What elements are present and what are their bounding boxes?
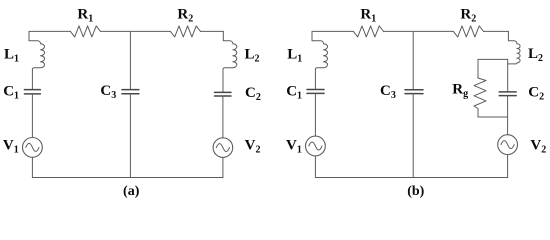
wire top rail right (b) — [484, 30, 509, 32]
svg-text:C1: C1 — [3, 84, 19, 102]
wire C3 branch top — [129, 31, 131, 89]
svg-text:C3: C3 — [100, 83, 116, 101]
wire top rail left (a) — [29, 30, 70, 32]
source V2 — [213, 138, 233, 158]
wire C3 branch bottom — [129, 94, 131, 178]
capacitor C1 — [24, 90, 40, 94]
svg-text:(b): (b) — [407, 184, 424, 199]
resistor Rg — [474, 78, 486, 109]
svg-text:R1: R1 — [360, 6, 376, 24]
svg-text:C2: C2 — [528, 85, 544, 103]
svg-text:V2: V2 — [245, 138, 261, 156]
capacitor C2 (b) — [499, 92, 516, 96]
svg-text:L2: L2 — [245, 47, 260, 65]
svg-text:C3: C3 — [380, 83, 396, 101]
svg-text:Rg: Rg — [452, 82, 468, 100]
svg-text:R2: R2 — [177, 6, 193, 24]
svg-text:V1: V1 — [286, 138, 302, 156]
svg-text:C2: C2 — [245, 85, 261, 103]
source V1 (b) — [306, 136, 326, 156]
inductor L1 (b) — [312, 31, 328, 69]
wire C3 branch bottom (b) — [412, 94, 414, 178]
wire Rg branch left upper (b) — [477, 59, 479, 78]
resistor R1 — [70, 26, 100, 37]
wire L1 to C1 — [31, 69, 33, 89]
wire parallel branch bottom (b) — [478, 116, 508, 118]
wire C2 to V2 — [222, 96, 224, 138]
resistor R2 — [170, 26, 200, 37]
svg-text:C1: C1 — [286, 84, 302, 102]
wire top rail middle (b) — [384, 30, 454, 32]
wire L1 to C1 (b) — [314, 69, 316, 89]
wire C1 to V1 (b) — [314, 94, 316, 137]
wire bottom rail (a) — [32, 177, 223, 179]
inductor L1 — [29, 31, 45, 69]
inductor L2 — [223, 31, 237, 69]
svg-text:R1: R1 — [77, 6, 93, 24]
svg-text:L1: L1 — [287, 47, 302, 65]
capacitor C1 (b) — [307, 90, 324, 94]
wire V2 to bottom rail — [222, 157, 224, 177]
capacitor C2 — [215, 92, 232, 96]
svg-text:V2: V2 — [530, 137, 546, 155]
source V2 (b) — [498, 135, 518, 155]
wire bottom rail (b) — [315, 177, 507, 179]
resistor R1 (b) — [353, 26, 383, 37]
svg-text:L1: L1 — [4, 47, 19, 65]
capacitor C3 — [122, 90, 139, 94]
wire V2 to bottom rail (b) — [507, 155, 509, 178]
wire top rail right (a) — [201, 30, 224, 32]
wire C2 to V2 (b) — [507, 96, 509, 135]
inductor L2 (b) — [508, 31, 520, 64]
resistor R2 (b) — [453, 26, 483, 37]
wire top rail left (b) — [312, 30, 353, 32]
capacitor C3 (b) — [405, 90, 423, 94]
wire Rg branch left lower (b) — [477, 109, 479, 118]
wire L2 junction to C2 (b) — [507, 59, 509, 91]
svg-text:(a): (a) — [123, 184, 140, 199]
wire top rail middle (a) — [101, 30, 171, 32]
wire C1 to V1 — [31, 94, 33, 137]
wire C3 branch top (b) — [412, 31, 414, 89]
wire V1 to bottom rail — [31, 157, 33, 177]
source V1 — [23, 138, 43, 158]
wire L2 to C2 — [222, 69, 224, 92]
svg-text:V1: V1 — [3, 138, 19, 156]
svg-text:L2: L2 — [528, 46, 543, 64]
wire parallel branch top (b) — [478, 58, 508, 60]
wire V1 to bottom rail (b) — [314, 156, 316, 178]
svg-text:R2: R2 — [460, 6, 476, 24]
